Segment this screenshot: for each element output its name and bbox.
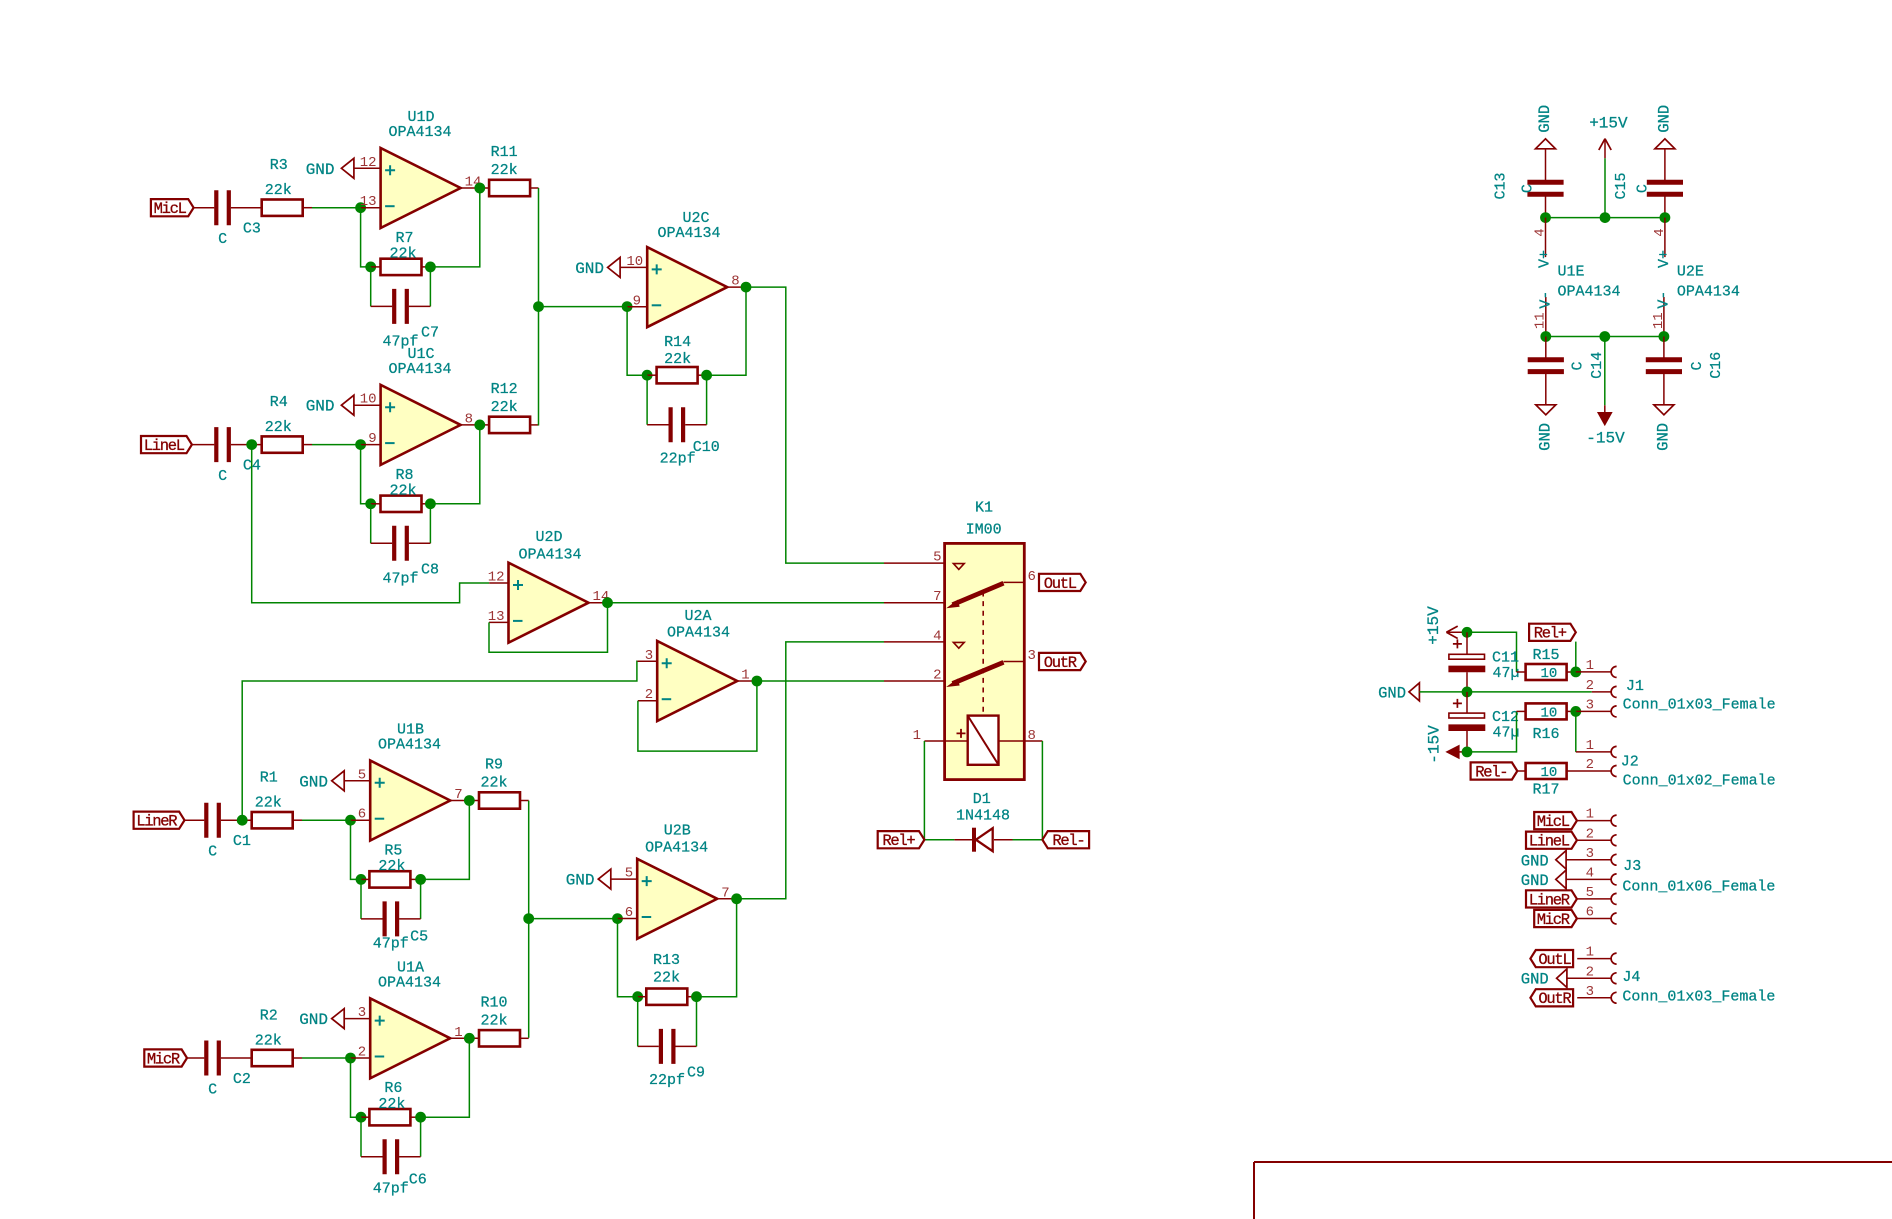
svg-text:GND: GND xyxy=(299,773,328,791)
svg-text:11: 11 xyxy=(1533,312,1549,329)
svg-text:C3: C3 xyxy=(243,221,261,238)
capacitor C10 22pf (U2C feedback) xyxy=(646,375,648,425)
pin 4 J3 xyxy=(1566,878,1611,880)
svg-text:47pf: 47pf xyxy=(373,1180,409,1197)
wire R9 to bus xyxy=(520,800,529,802)
power symbol GND at U1C non-inverting input xyxy=(341,395,354,415)
svg-text:+15V: +15V xyxy=(1425,606,1443,645)
resistor R1 22k xyxy=(252,812,293,828)
capacitor C11 47u (polarized) xyxy=(1466,632,1468,654)
pin 13 U2D inverting input xyxy=(489,621,509,623)
resistor R11 22k (summing) xyxy=(489,180,530,196)
svg-text:R7: R7 xyxy=(395,230,413,247)
svg-text:U2A: U2A xyxy=(684,608,711,625)
junction R5 right xyxy=(415,874,426,885)
pin 2 J3 xyxy=(1577,839,1611,841)
relay coil xyxy=(968,716,999,765)
resistor R9 22k (summing) xyxy=(479,792,520,808)
junction U1C output node xyxy=(474,420,485,431)
svg-text:D1: D1 xyxy=(973,791,991,808)
svg-text:C5: C5 xyxy=(410,928,428,945)
capacitor C7 47pf (feedback) xyxy=(370,267,372,307)
svg-text:R2: R2 xyxy=(260,1007,278,1024)
wire R12 to bus xyxy=(530,424,538,426)
svg-text:V+: V+ xyxy=(1537,250,1554,268)
pin 2 U2A inverting input xyxy=(638,700,657,702)
resistor R13 22k (U2B feedback) xyxy=(638,996,647,998)
svg-text:C13: C13 xyxy=(1493,172,1510,199)
junction U1D inverting input node xyxy=(355,202,366,213)
power symbol +15V (input) xyxy=(1446,626,1457,638)
wire +15V to V+ rail xyxy=(1604,158,1606,217)
svg-text:C1: C1 xyxy=(233,833,251,850)
svg-text:R12: R12 xyxy=(491,381,518,398)
junction R13 right xyxy=(691,991,702,1002)
junction U2D output node xyxy=(602,597,613,608)
global label MicR (J3 pin 6) xyxy=(1534,910,1577,927)
svg-text:22k: 22k xyxy=(491,162,518,179)
junction R8 right xyxy=(425,498,436,509)
svg-text:OPA4134: OPA4134 xyxy=(518,547,581,564)
svg-text:C10: C10 xyxy=(693,439,720,456)
junction U1B output node xyxy=(464,795,475,806)
svg-text:22k: 22k xyxy=(255,1033,282,1050)
capacitor C1 value C (LineR input coupling) xyxy=(206,803,219,838)
svg-text:GND: GND xyxy=(299,1011,328,1029)
pin 2 J2 xyxy=(1567,770,1612,772)
junction R6 left xyxy=(356,1112,367,1123)
svg-text:47µ: 47µ xyxy=(1492,725,1519,742)
svg-text:GND: GND xyxy=(1655,423,1673,451)
pin 1 J2 xyxy=(1576,751,1612,753)
resistor R10 22k (summing) xyxy=(479,1030,520,1046)
svg-text:22k: 22k xyxy=(653,970,680,987)
junction U1D output node xyxy=(474,183,485,194)
junction R14 left xyxy=(642,370,653,381)
resistor R5 22k (feedback) xyxy=(361,878,369,880)
wire MicL to C3 xyxy=(194,207,215,209)
wire R1 to U1B inverting input xyxy=(293,819,302,821)
svg-text:3: 3 xyxy=(645,648,653,664)
svg-text:3: 3 xyxy=(1586,984,1594,1000)
global label LineL xyxy=(141,436,192,453)
relay K1 IM00 body xyxy=(945,543,1025,779)
pin 6 J3 xyxy=(1577,918,1611,920)
svg-text:GND: GND xyxy=(1521,971,1549,989)
svg-text:7: 7 xyxy=(721,885,729,901)
svg-text:Conn_01x03_Female: Conn_01x03_Female xyxy=(1622,989,1775,1006)
svg-text:1: 1 xyxy=(1586,738,1594,754)
wire bus to U2B inverting input xyxy=(529,918,618,920)
junction U1A output node xyxy=(464,1033,475,1044)
svg-text:R4: R4 xyxy=(270,394,288,411)
svg-text:OutR: OutR xyxy=(1538,990,1571,1008)
svg-text:1: 1 xyxy=(1586,807,1594,823)
svg-text:Conn_01x02_Female: Conn_01x02_Female xyxy=(1623,773,1776,790)
wire U1C feedback left xyxy=(361,445,371,504)
resistor R17 10 xyxy=(1517,770,1525,772)
svg-text:Rel-: Rel- xyxy=(1052,832,1084,850)
diode D1 1N4148 (flyback) xyxy=(954,839,972,841)
junction +15V input xyxy=(1462,627,1473,638)
pin 7 U2B output xyxy=(717,898,736,900)
svg-text:R5: R5 xyxy=(384,842,402,859)
svg-text:47µ: 47µ xyxy=(1492,665,1519,682)
global label LineR (J3 pin 5) xyxy=(1526,890,1577,907)
junction U2C output node xyxy=(741,282,752,293)
svg-text:22k: 22k xyxy=(480,1012,507,1029)
pin 3 U2A non-inverting input xyxy=(637,660,657,662)
resistor R7 22k (feedback) xyxy=(371,266,381,268)
junction R5 left xyxy=(356,874,367,885)
svg-text:22k: 22k xyxy=(378,858,405,875)
op-amp U1C OPA4134 xyxy=(381,385,461,465)
svg-text:OPA4134: OPA4134 xyxy=(388,124,451,141)
svg-text:V-: V- xyxy=(1538,291,1555,309)
pin 11 U2E V- xyxy=(1663,297,1665,337)
svg-text:Rel+: Rel+ xyxy=(882,832,915,850)
junction LineR tap node xyxy=(237,815,248,826)
capacitor C3 value C (MicL input coupling) xyxy=(216,190,229,225)
wire R6 to U1A output xyxy=(421,1038,470,1117)
pin 12 U2D non-inverting input xyxy=(489,582,508,584)
svg-text:2: 2 xyxy=(358,1045,366,1061)
pin 6 U2B inverting input xyxy=(618,918,638,920)
svg-text:OPA4134: OPA4134 xyxy=(645,839,708,856)
power symbol -15V (input) xyxy=(1446,745,1459,758)
svg-text:+15V: +15V xyxy=(1589,115,1628,133)
svg-text:C12: C12 xyxy=(1492,709,1519,726)
resistor R4 22k xyxy=(262,436,303,452)
svg-text:LineL: LineL xyxy=(144,437,185,455)
svg-text:6: 6 xyxy=(358,807,366,823)
svg-text:GND: GND xyxy=(566,872,595,890)
wire U1D feedback left xyxy=(361,208,371,267)
capacitor C5 47pf (feedback) xyxy=(360,879,362,919)
title block frame corner xyxy=(1254,1162,1892,1219)
global label OutL xyxy=(1039,574,1086,591)
wire U2A output to relay pin 2 xyxy=(757,680,884,682)
capacitor C8 47pf (feedback) xyxy=(370,504,372,544)
svg-text:2: 2 xyxy=(645,687,653,703)
power symbol GND at U1B non-inverting input xyxy=(332,771,345,791)
pin 5 J3 xyxy=(1577,898,1611,900)
svg-text:1N4148: 1N4148 xyxy=(956,808,1010,825)
svg-text:R17: R17 xyxy=(1532,782,1559,799)
relay switch marker R xyxy=(953,642,964,648)
junction U1A inverting input node xyxy=(345,1053,356,1064)
global label OutL (J4 pin 1) xyxy=(1530,950,1573,967)
pin 14 U2D output xyxy=(589,602,608,604)
svg-text:22k: 22k xyxy=(664,351,691,368)
power symbol GND (J3 pin 4) xyxy=(1556,870,1566,889)
svg-text:4: 4 xyxy=(1533,228,1549,236)
resistor R15 10 xyxy=(1517,671,1526,673)
power symbol GND (input) xyxy=(1409,683,1419,701)
svg-text:LineL: LineL xyxy=(1529,833,1570,851)
junction V- rail centre xyxy=(1599,331,1610,342)
wire LineR to C1 xyxy=(185,819,205,821)
wire V+ rail xyxy=(1546,217,1665,219)
relay actuator dashed link xyxy=(982,592,984,715)
svg-text:5: 5 xyxy=(358,767,366,783)
svg-text:1: 1 xyxy=(1586,658,1594,674)
svg-text:C14: C14 xyxy=(1589,352,1606,379)
svg-text:C: C xyxy=(1570,361,1587,370)
svg-text:2: 2 xyxy=(1586,757,1594,773)
junction R13 left xyxy=(632,991,643,1002)
wire LineL to C4 xyxy=(192,444,214,446)
svg-text:C2: C2 xyxy=(233,1071,251,1088)
svg-text:R1: R1 xyxy=(260,770,278,787)
svg-text:11: 11 xyxy=(1651,312,1667,329)
capacitor C2 value C (MicR input coupling) xyxy=(206,1041,219,1076)
svg-text:-15V: -15V xyxy=(1586,429,1625,447)
svg-text:GND: GND xyxy=(306,161,335,179)
wire C2 to R2 xyxy=(221,1057,252,1059)
relay switch blade L xyxy=(953,583,1004,605)
wire U2D output to relay pin 7 xyxy=(608,602,885,604)
wire U2D feedback xyxy=(489,603,608,653)
svg-text:13: 13 xyxy=(488,609,505,625)
svg-text:22k: 22k xyxy=(389,246,416,263)
junction R7 right xyxy=(425,262,436,273)
pin 8 U2C output xyxy=(727,286,746,288)
power symbol GND (J3 pin 3) xyxy=(1556,851,1566,870)
wire LineR tap to U2A non-inverting input xyxy=(242,661,637,820)
wire R5 to U1B output xyxy=(421,801,470,880)
svg-text:R15: R15 xyxy=(1532,647,1559,664)
svg-text:R8: R8 xyxy=(395,467,413,484)
pin 14 U1D output xyxy=(461,187,490,189)
pin 1 U2A output xyxy=(737,680,757,682)
pin 9 U2C inverting input xyxy=(627,306,647,308)
svg-text:R10: R10 xyxy=(480,994,507,1011)
wire R2 to U1A inverting input xyxy=(293,1057,302,1059)
wire relay pin 1 to diode xyxy=(924,741,954,840)
svg-text:GND: GND xyxy=(575,260,604,278)
svg-text:5: 5 xyxy=(625,866,633,882)
junction U2A output node xyxy=(752,676,763,687)
resistor R6 22k (feedback) xyxy=(361,1116,369,1118)
global label OutR xyxy=(1039,653,1086,670)
svg-text:C16: C16 xyxy=(1708,352,1725,379)
wire R10 to bus xyxy=(520,1037,529,1039)
svg-text:22k: 22k xyxy=(378,1096,405,1113)
capacitor C9 22pf (U2B feedback) xyxy=(637,997,639,1047)
wire coil to box edges xyxy=(945,740,1025,742)
junction V- rail at C14 xyxy=(1540,331,1551,342)
svg-text:R3: R3 xyxy=(270,157,288,174)
svg-text:OutL: OutL xyxy=(1044,575,1077,593)
svg-text:C7: C7 xyxy=(421,324,439,341)
svg-text:V+: V+ xyxy=(1656,250,1673,268)
power symbol GND above C13 xyxy=(1536,139,1556,149)
svg-text:13: 13 xyxy=(360,194,377,210)
pin 7 relay input L xyxy=(884,602,945,604)
wire V- to -15V xyxy=(1604,337,1606,406)
pin 9 U1C inverting input xyxy=(361,444,381,446)
svg-text:OPA4134: OPA4134 xyxy=(1558,284,1621,301)
svg-text:U2B: U2B xyxy=(664,823,691,840)
svg-text:GND: GND xyxy=(1536,423,1554,451)
wire R8 to U1C output xyxy=(430,425,479,504)
op-amp U1D OPA4134 xyxy=(381,148,461,228)
wire U1B feedback left xyxy=(351,820,362,879)
pin 2 relay input R xyxy=(884,680,945,682)
svg-text:OPA4134: OPA4134 xyxy=(1677,284,1740,301)
svg-text:1: 1 xyxy=(741,668,749,684)
svg-text:4: 4 xyxy=(933,628,941,644)
svg-text:MicL: MicL xyxy=(154,200,187,218)
svg-text:5: 5 xyxy=(933,550,941,566)
svg-text:C11: C11 xyxy=(1492,650,1519,667)
svg-text:C: C xyxy=(218,468,227,485)
svg-text:Rel-: Rel- xyxy=(1475,763,1507,781)
svg-text:R16: R16 xyxy=(1532,726,1559,743)
capacitor C6 47pf (feedback) xyxy=(360,1117,362,1157)
junction GND input xyxy=(1462,687,1473,698)
op-amp U2B OPA4134 (right sum) xyxy=(637,859,717,939)
op-amp U2A OPA4134 (buffer R) xyxy=(657,641,737,721)
junction R15 / J1 pin 1 / Rel+ xyxy=(1570,667,1581,678)
wire U2A feedback xyxy=(638,681,757,751)
capacitor C13 value C (V+ decoupling) xyxy=(1545,148,1547,182)
svg-text:1: 1 xyxy=(454,1025,462,1041)
svg-text:10: 10 xyxy=(626,254,643,270)
relay switch marker L xyxy=(953,564,964,570)
svg-text:6: 6 xyxy=(625,905,633,921)
power symbol GND (J4 pin 2) xyxy=(1557,969,1567,988)
svg-text:9: 9 xyxy=(368,431,376,447)
wire MicR to C2 xyxy=(187,1057,204,1059)
resistor R16 10 xyxy=(1517,710,1526,712)
capacitor C16 value C (V- decoupling) xyxy=(1663,337,1665,360)
svg-text:U2E: U2E xyxy=(1677,264,1704,281)
svg-text:MicL: MicL xyxy=(1537,813,1570,831)
junction R14 right xyxy=(701,370,712,381)
svg-text:MicR: MicR xyxy=(1537,911,1570,929)
junction V+ rail xyxy=(1540,212,1551,223)
svg-text:7: 7 xyxy=(454,787,462,803)
wire R7 to U1D output xyxy=(430,188,479,267)
svg-text:GND: GND xyxy=(306,398,335,416)
svg-text:8: 8 xyxy=(1028,728,1036,744)
svg-text:3: 3 xyxy=(358,1005,366,1021)
power symbol GND at U1A non-inverting input xyxy=(332,1009,345,1029)
svg-text:C: C xyxy=(208,1082,217,1099)
power symbol GND at U1D non-inverting input xyxy=(341,158,354,178)
pin 1 U1A output xyxy=(450,1037,479,1039)
svg-text:OPA4134: OPA4134 xyxy=(667,625,730,642)
svg-text:OPA4134: OPA4134 xyxy=(657,225,720,242)
junction U2B output node xyxy=(731,893,742,904)
svg-text:C: C xyxy=(1689,361,1706,370)
power symbol GND at U2C non-inverting input xyxy=(608,257,621,277)
pin 1 J3 xyxy=(1577,820,1611,822)
svg-text:22k: 22k xyxy=(491,399,518,416)
junction R8 left xyxy=(365,498,376,509)
svg-text:U2D: U2D xyxy=(535,529,562,546)
svg-text:R11: R11 xyxy=(491,144,518,161)
svg-text:2: 2 xyxy=(1586,678,1594,694)
svg-text:22k: 22k xyxy=(265,182,292,199)
svg-text:C: C xyxy=(1519,184,1536,193)
pin 11 U1E V- xyxy=(1545,297,1547,337)
global label OutR (J4 pin 3) xyxy=(1530,989,1573,1006)
junction bus left column xyxy=(533,301,544,312)
pin 13 U1D inverting input xyxy=(361,207,381,209)
svg-text:2: 2 xyxy=(1586,826,1594,842)
svg-text:8: 8 xyxy=(731,274,739,290)
svg-text:10: 10 xyxy=(1540,666,1557,682)
svg-text:R13: R13 xyxy=(653,952,680,969)
wire LineL tap to U2D non-inverting input xyxy=(252,445,490,603)
pin 7 U1B output xyxy=(450,800,479,802)
wire U2B output to relay pin 4 xyxy=(737,642,884,899)
op-amp U1A OPA4134 xyxy=(370,998,450,1078)
junction U2B inverting input xyxy=(612,913,623,924)
power symbol GND above C15 xyxy=(1655,139,1675,149)
svg-text:C: C xyxy=(218,231,227,248)
wire relay blade R to pin 3 xyxy=(1004,661,1025,663)
svg-text:C6: C6 xyxy=(409,1172,427,1189)
resistor R8 22k (feedback) xyxy=(371,503,381,505)
wire C15 to V+ rail xyxy=(1664,195,1666,218)
svg-text:3: 3 xyxy=(1028,648,1036,664)
junction R7 left xyxy=(365,262,376,273)
power symbol -15V (rails) xyxy=(1604,405,1606,412)
power symbol +15V (rails) xyxy=(1599,139,1611,150)
op-amp U1B OPA4134 xyxy=(370,761,450,841)
wire bus R11/R12 junction column xyxy=(538,188,540,426)
wire +15V to R15 xyxy=(1467,632,1517,672)
capacitor C15 value C (V+ decoupling) xyxy=(1664,148,1666,182)
svg-text:Conn_01x06_Female: Conn_01x06_Female xyxy=(1622,879,1775,896)
wire R3 to U1D inverting input xyxy=(303,207,312,209)
svg-text:-15V: -15V xyxy=(1426,725,1444,764)
svg-text:GND: GND xyxy=(1536,105,1554,133)
junction V- rail at C16 xyxy=(1659,331,1670,342)
pin 1 J4 xyxy=(1577,958,1611,960)
svg-text:GND: GND xyxy=(1378,684,1406,702)
resistor R3 22k xyxy=(262,200,303,216)
svg-text:6: 6 xyxy=(1586,905,1594,921)
svg-text:C: C xyxy=(1634,184,1651,193)
pin 3 J3 xyxy=(1566,859,1611,861)
svg-text:22k: 22k xyxy=(389,483,416,500)
svg-text:5: 5 xyxy=(1586,885,1594,901)
svg-text:GND: GND xyxy=(1521,872,1549,890)
svg-text:22pf: 22pf xyxy=(649,1072,685,1089)
svg-text:J1: J1 xyxy=(1626,678,1644,695)
global label Rel- (input) xyxy=(1471,762,1518,779)
capacitor C4 value C (LineL input coupling) xyxy=(216,427,229,462)
resistor R12 22k (summing) xyxy=(489,417,530,433)
svg-text:IM00: IM00 xyxy=(966,521,1002,538)
resistor R2 22k xyxy=(252,1050,293,1066)
svg-text:GND: GND xyxy=(1656,105,1674,133)
svg-text:10: 10 xyxy=(360,392,377,408)
svg-text:OutL: OutL xyxy=(1538,951,1571,969)
svg-text:J4: J4 xyxy=(1622,969,1640,986)
svg-text:9: 9 xyxy=(633,293,641,309)
junction -15V input xyxy=(1462,747,1473,758)
svg-text:22k: 22k xyxy=(265,419,292,436)
svg-text:R9: R9 xyxy=(485,757,503,774)
pin 8 U1C output xyxy=(461,424,490,426)
capacitor C12 47u (polarized) xyxy=(1466,692,1468,713)
